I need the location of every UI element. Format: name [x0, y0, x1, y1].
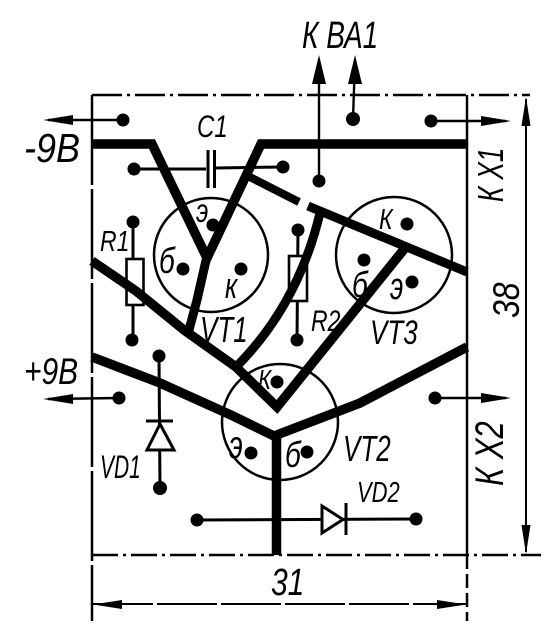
pad +9V: [113, 392, 126, 405]
pad VT2 k: [271, 376, 284, 389]
svg-text:к: к: [225, 265, 238, 306]
pad VT2 e: [245, 447, 258, 460]
svg-text:К: К: [379, 202, 394, 235]
wire: shallow trace from VT1 arm to right edge (with gap): [246, 175, 299, 202]
pad BA1 arrow b: [346, 112, 360, 126]
pad VD2 right: [410, 513, 423, 526]
svg-text:R2: R2: [311, 304, 341, 338]
board outline bottom edge: [92, 554, 541, 557]
pad R1 top: [127, 216, 140, 229]
capacitor C1 wires: [134, 167, 283, 169]
resistor R2 lead: [297, 230, 298, 340]
board outline top edge: [92, 94, 530, 97]
transistor VT1 circle: [154, 198, 268, 312]
dimension line 31: [93, 603, 466, 605]
svg-text:б: б: [352, 264, 369, 304]
svg-text:э: э: [390, 264, 403, 307]
pad R2 top: [292, 224, 305, 237]
wire: long diagonal from left edge through J2 to VT2 vertex and up to VT3 trace: [92, 248, 405, 407]
pad VD2 left: [191, 514, 204, 527]
svg-text:К ВА1: К ВА1: [302, 15, 378, 57]
svg-text:VT2: VT2: [343, 428, 391, 469]
pad R1 bottom: [126, 334, 139, 347]
svg-text:К Х1: К Х1: [470, 148, 511, 202]
diode VD2 symbol: [345, 503, 348, 535]
svg-text:38: 38: [487, 282, 528, 318]
diode VD1 lead: [159, 356, 160, 488]
pad R2 bottom: [291, 334, 304, 347]
arrow X1: [431, 120, 506, 122]
arrow -9V: [48, 119, 123, 121]
svg-text:R1: R1: [100, 224, 129, 257]
capacitor C1 plates: [208, 150, 215, 188]
pad VT3 b: [358, 254, 371, 267]
pad X2 arrow: [429, 392, 442, 405]
pad C1 left: [128, 163, 141, 176]
svg-text:К: К: [258, 365, 272, 396]
arrow +9V: [48, 398, 119, 399]
svg-text:б: б: [159, 240, 176, 280]
arrow X2: [435, 397, 506, 399]
pad VT3 e: [406, 276, 419, 289]
resistor R2 body: [289, 256, 307, 301]
dimension line 38: [525, 99, 527, 552]
wire: +9V trace from left edge to VT2 lower vertex and up to right edge: [92, 347, 467, 436]
arrow BA1 b: [353, 60, 355, 119]
right edge dimension extension: [466, 555, 469, 621]
pad VT3 k: [401, 218, 414, 231]
transistor VT2 circle: [222, 364, 338, 480]
diode VD2 wire: [197, 519, 416, 520]
pad VT1 k: [235, 263, 248, 276]
pad X1 arrow: [425, 115, 438, 128]
svg-text:б: б: [285, 434, 302, 474]
wire: VT1 stem down to junction: [189, 256, 207, 330]
pad VT1 b: [177, 263, 190, 276]
resistor R1 lead: [132, 222, 135, 340]
pad C1 right: [277, 161, 290, 174]
wire: -9V trace, V under C1, horizontal to right edge: [92, 144, 467, 258]
svg-text:К Х2: К Х2: [467, 421, 512, 486]
transistor VT3 circle: [336, 197, 452, 313]
svg-text:VD1: VD1: [100, 448, 141, 485]
pad BA1 arrow a: [313, 175, 326, 188]
pad VD1 top: [153, 350, 166, 363]
svg-text:+9В: +9В: [24, 351, 78, 393]
wire: VT2 stem to bottom edge: [272, 434, 282, 555]
svg-text:VT3: VT3: [370, 315, 418, 352]
board outline left edge: [91, 95, 94, 621]
svg-text:э: э: [196, 192, 208, 230]
pad VT1 e: [207, 219, 220, 232]
svg-text:VT1: VT1: [200, 309, 248, 350]
svg-text:э: э: [229, 423, 243, 467]
arrow BA1 a: [318, 60, 320, 181]
svg-text:-9В: -9В: [24, 126, 80, 172]
svg-text:С1: С1: [197, 109, 228, 144]
pad -9V: [117, 114, 130, 127]
pad VT2 b: [301, 446, 314, 459]
wire: steep curved trace from top junction down to J2: [236, 213, 320, 367]
board outline right edge: [466, 95, 469, 555]
svg-text:31: 31: [271, 562, 304, 604]
resistor R1 body: [127, 259, 144, 305]
pad VD1 bottom: [153, 481, 167, 495]
diode VD1 symbol: [146, 420, 173, 423]
svg-text:VD2: VD2: [357, 477, 400, 508]
